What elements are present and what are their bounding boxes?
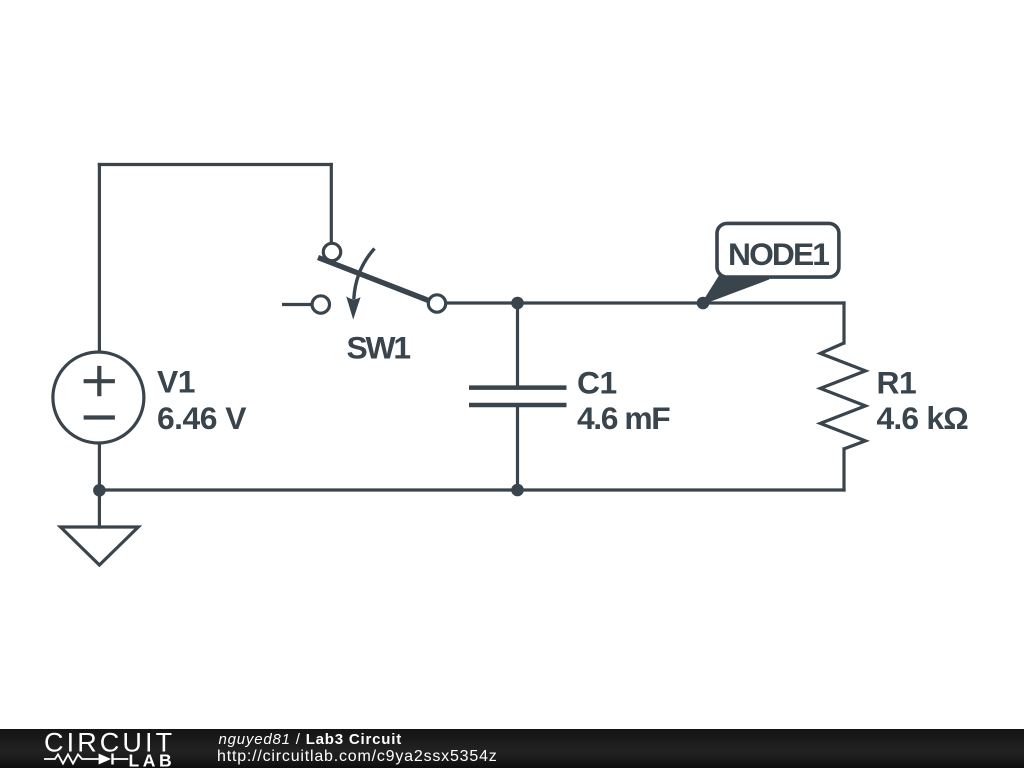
svg-text:LAB: LAB [129, 750, 176, 768]
footer title text [219, 731, 403, 748]
label SW1 [347, 330, 411, 366]
svg-text:SW1: SW1 [347, 330, 411, 366]
svg-text:C1: C1 [577, 365, 617, 401]
capacitor C1 [469, 388, 567, 405]
wire: top horizontal [99, 163, 331, 166]
wire: down to switch top terminal [330, 165, 333, 243]
wire: capacitor top lead [516, 303, 519, 385]
footer url text [217, 748, 498, 766]
node label NODE1 callout [703, 223, 839, 303]
label V1 value [157, 364, 246, 436]
svg-text:NODE1: NODE1 [728, 236, 829, 272]
wire: bottom horizontal [99, 488, 844, 491]
svg-text:4.6 kΩ: 4.6 kΩ [877, 400, 969, 436]
wire: main horizontal node wire [446, 301, 844, 304]
node junction dot: capacitor top [511, 297, 524, 310]
node junction dot: ground node at V1 [93, 484, 106, 497]
CircuitLab logo [0, 729, 200, 768]
wire: resistor top lead [842, 303, 845, 343]
wire: stub left of switch open throw [284, 303, 312, 306]
label C1 value [577, 365, 670, 436]
ground symbol [61, 527, 139, 565]
svg-text:V1: V1 [157, 364, 195, 400]
node junction dot: capacitor bottom [511, 484, 524, 497]
switch SW1 [312, 243, 446, 319]
footer bar [0, 729, 1024, 768]
wire: capacitor bottom lead [516, 407, 519, 490]
svg-text:6.46 V: 6.46 V [157, 400, 246, 436]
wire: resistor bottom lead [842, 449, 845, 490]
wire: V1 top lead up to corner [98, 165, 101, 352]
label R1 value [877, 365, 969, 436]
node junction dot: NODE1 attach point [697, 297, 710, 310]
resistor R1 [820, 343, 865, 449]
voltage source V1 [53, 352, 144, 443]
svg-text:R1: R1 [877, 365, 917, 401]
svg-text:4.6 mF: 4.6 mF [577, 400, 670, 436]
wire: V1 bottom lead to ground [98, 446, 101, 527]
